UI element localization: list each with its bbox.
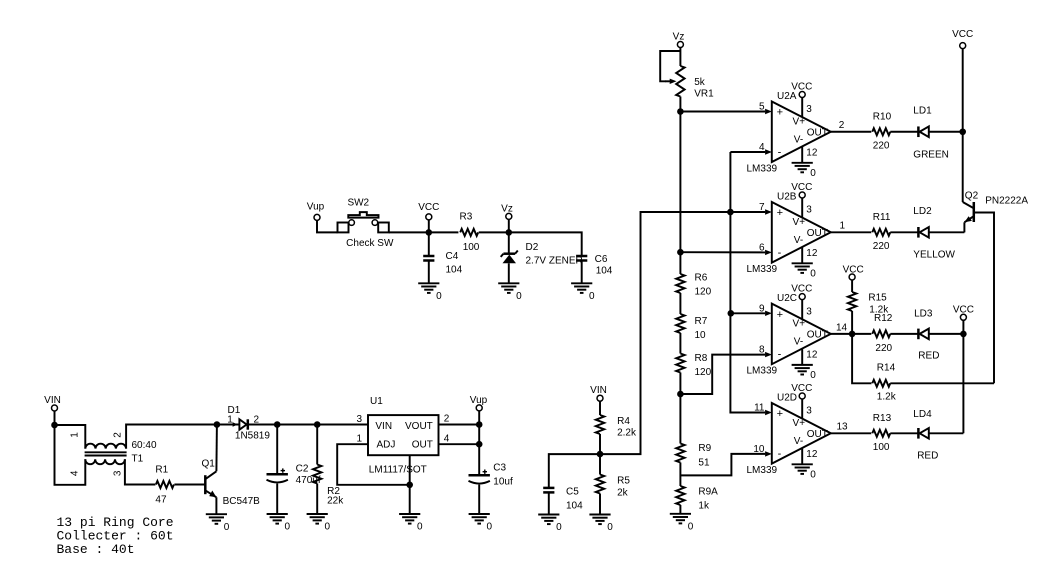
- node D1 anode junction: [214, 421, 221, 428]
- svg-text:12: 12: [806, 449, 818, 460]
- svg-text:BC547B: BC547B: [223, 496, 261, 507]
- svg-text:LM1117/SOT: LM1117/SOT: [369, 465, 427, 476]
- wire VCC node to R3: [429, 231, 459, 233]
- wire T1 pin2 to top rail: [126, 425, 217, 449]
- wire U1 gnd tab: [409, 455, 411, 514]
- svg-text:220: 220: [875, 343, 892, 354]
- resistor R5: [596, 475, 604, 494]
- capacitor C5 104: [543, 488, 554, 493]
- arrow into U2C - input: [765, 352, 772, 357]
- wire U2D output: [831, 432, 872, 434]
- wire D1 anode lead: [217, 424, 240, 426]
- op-amp U2D (LM339 comparator): [747, 392, 831, 476]
- node LD1-VCC junction: [959, 128, 966, 135]
- svg-text:0: 0: [589, 291, 595, 302]
- ground below D2: [498, 283, 522, 302]
- svg-text:1: 1: [70, 432, 81, 438]
- svg-text:R9: R9: [698, 443, 711, 454]
- svg-text:VCC: VCC: [953, 305, 974, 316]
- wire R11 to LD2: [890, 231, 918, 233]
- svg-text:0: 0: [487, 522, 493, 533]
- svg-text:D2: D2: [526, 242, 539, 253]
- node Vz junction: [506, 229, 513, 236]
- wire LD3 to VCC: [929, 333, 964, 335]
- op-amp U2B (LM339 comparator): [747, 191, 831, 274]
- node measured-pin7 junction: [727, 209, 734, 216]
- Vz terminal (top mid): [501, 203, 513, 219]
- Vup terminal (at SW2): [307, 202, 325, 221]
- svg-text:OUT: OUT: [807, 228, 828, 239]
- svg-text:LD2: LD2: [913, 206, 932, 217]
- svg-text:-: -: [778, 146, 782, 158]
- wire R9A bottom lead: [679, 505, 681, 514]
- transformer T1 core: [85, 452, 127, 455]
- node ladder tap pin6: [677, 249, 684, 256]
- wire R5 top lead: [599, 454, 601, 474]
- svg-text:VIN: VIN: [375, 421, 392, 432]
- svg-text:4: 4: [70, 470, 81, 476]
- node OUT junction: [476, 441, 483, 448]
- svg-text:GREEN: GREEN: [913, 149, 949, 160]
- wire U2A output: [831, 131, 872, 133]
- svg-text:1.2k: 1.2k: [877, 392, 897, 403]
- wire R2 bottom lead: [316, 484, 318, 515]
- VCC terminal (top mid): [418, 202, 439, 220]
- wire Q1 emitter down: [215, 497, 217, 514]
- svg-text:104: 104: [446, 265, 463, 276]
- wire divider to pin7 rail: [600, 212, 765, 454]
- svg-text:14: 14: [836, 322, 848, 333]
- svg-text:OUT: OUT: [412, 439, 433, 450]
- wire C3 bottom lead: [478, 485, 480, 514]
- svg-text:0: 0: [516, 291, 522, 302]
- wire pin9 tap to U2C +: [731, 312, 765, 314]
- svg-text:VCC: VCC: [952, 29, 973, 40]
- svg-text:6: 6: [759, 242, 765, 253]
- LED LD3: [918, 329, 928, 340]
- ground below U2B: [792, 263, 817, 279]
- svg-text:U1: U1: [370, 396, 383, 407]
- op-amp U2C VCC pin: [791, 284, 812, 319]
- wire VIN node to T1 pin1: [55, 425, 86, 449]
- svg-text:4: 4: [444, 434, 450, 445]
- svg-text:3: 3: [806, 205, 812, 216]
- wire LD2 to Q2 emitter: [929, 231, 965, 233]
- arrow into U2A - input: [765, 149, 772, 154]
- node VOUT junction: [476, 421, 483, 428]
- svg-text:VCC: VCC: [843, 264, 864, 275]
- capacitor C4 104: [423, 256, 434, 261]
- node R2 junction: [314, 421, 321, 428]
- svg-text:0: 0: [417, 522, 423, 533]
- ground below C2: [267, 514, 291, 533]
- wire C2 bottom lead: [276, 484, 278, 515]
- svg-text:Vup: Vup: [470, 395, 488, 406]
- svg-text:1k: 1k: [698, 501, 710, 512]
- svg-text:1: 1: [840, 221, 846, 232]
- svg-text:2.2k: 2.2k: [617, 428, 637, 439]
- arrow into U2A + input: [765, 109, 772, 114]
- arrow into U2C + input: [765, 311, 772, 316]
- svg-text:Base : 40t: Base : 40t: [57, 542, 135, 557]
- svg-text:C6: C6: [595, 254, 608, 265]
- node measured-pin9 junction: [728, 310, 735, 317]
- svg-text:V-: V-: [794, 337, 803, 348]
- svg-text:12: 12: [806, 248, 818, 259]
- wire R2 top lead: [316, 425, 318, 465]
- svg-text:R9A: R9A: [698, 487, 718, 498]
- svg-text:R1: R1: [155, 465, 168, 476]
- wire D2 top lead: [508, 232, 510, 253]
- capacitor C2 470uf: [267, 468, 288, 482]
- resistor R13: [872, 430, 890, 437]
- potentiometer VR1 5k: [676, 66, 684, 97]
- svg-text:R3: R3: [460, 212, 473, 223]
- svg-text:-: -: [778, 349, 782, 361]
- svg-text:OUT: OUT: [807, 429, 828, 440]
- svg-text:104: 104: [596, 266, 613, 277]
- resistor R15: [848, 292, 856, 311]
- wire C2 top lead: [276, 425, 278, 475]
- wire R9 to pin10 tap: [679, 463, 681, 487]
- wire R6-R7: [679, 293, 681, 314]
- wire U1 OUT to Vup rail: [439, 443, 480, 445]
- wire VCC rail down to Q2: [962, 49, 964, 202]
- op-amp U2A (LM339 comparator): [747, 91, 831, 175]
- resistor R12: [872, 330, 890, 337]
- transformer T1 primary winding: [85, 444, 126, 449]
- svg-text:VIN: VIN: [44, 395, 61, 406]
- svg-text:V+: V+: [793, 319, 806, 330]
- VCC terminal (top right): [952, 29, 973, 49]
- svg-text:11: 11: [754, 403, 765, 414]
- svg-text:1: 1: [227, 414, 233, 425]
- wire VR1 to ladder top node: [679, 97, 681, 112]
- diode D1 pin arrow: [233, 422, 238, 427]
- resistor R9: [676, 444, 684, 463]
- wire measured rail pin4: [730, 151, 765, 153]
- wire D2 bottom lead: [508, 263, 510, 283]
- resistor R4: [596, 415, 604, 434]
- svg-text:LM339: LM339: [747, 465, 778, 476]
- svg-text:120: 120: [695, 367, 712, 378]
- wire R15 to out14 node: [851, 311, 853, 334]
- ground below R2: [307, 514, 331, 533]
- resistor R14: [872, 380, 890, 387]
- wire R12 to LD3: [890, 333, 918, 335]
- node divider junction: [597, 451, 604, 458]
- svg-text:100: 100: [463, 242, 480, 253]
- VCC terminal (above R15): [843, 264, 864, 280]
- arrow into U2B + input: [765, 209, 772, 214]
- wire Q2 emitter to LD2: [963, 222, 965, 232]
- wire VIN terminal to node: [54, 411, 56, 425]
- VIN terminal (left): [44, 395, 61, 411]
- wire Q1 collector up: [215, 425, 218, 472]
- arrow into U2B - input: [765, 250, 772, 255]
- svg-text:R10: R10: [873, 111, 892, 122]
- svg-text:0: 0: [436, 291, 442, 302]
- op-amp U2A ground pin: [801, 147, 803, 163]
- svg-text:LD1: LD1: [913, 106, 932, 117]
- node C2 junction: [274, 421, 281, 428]
- Vup terminal (at U1): [470, 395, 488, 411]
- wire Vup to SW2: [317, 220, 338, 232]
- svg-text:R8: R8: [695, 353, 708, 364]
- wire LD1 to VCC rail: [929, 131, 963, 133]
- svg-text:YELLOW: YELLOW: [913, 250, 955, 261]
- svg-text:Q1: Q1: [202, 459, 216, 470]
- svg-text:0: 0: [325, 522, 331, 533]
- node VCC junction: [426, 229, 433, 236]
- resistor R3: [460, 229, 478, 236]
- svg-text:OUT: OUT: [807, 127, 828, 138]
- wire ladder R6 top lead: [679, 252, 681, 274]
- wire measured rail vertical: [730, 152, 765, 413]
- wire R3 to Vz node: [479, 231, 509, 233]
- transistor Q1 BC547B: [205, 471, 216, 497]
- svg-text:R12: R12: [874, 313, 893, 324]
- svg-text:0: 0: [688, 521, 694, 532]
- LED LD2: [918, 227, 928, 238]
- svg-text:VCC: VCC: [791, 284, 812, 295]
- svg-text:VR1: VR1: [694, 89, 714, 100]
- svg-text:Vup: Vup: [307, 202, 325, 213]
- svg-text:47: 47: [155, 495, 167, 506]
- op-amp U2D VCC pin: [791, 383, 812, 418]
- svg-text:+: +: [777, 207, 783, 219]
- capacitor C6 104: [576, 256, 587, 261]
- svg-text:V+: V+: [793, 116, 806, 127]
- svg-text:5k: 5k: [694, 77, 706, 88]
- wire U1 VOUT to Vup node: [439, 424, 480, 426]
- svg-text:V-: V-: [794, 134, 803, 145]
- resistor R2: [313, 465, 321, 484]
- svg-text:2: 2: [112, 432, 123, 438]
- diode D1 1N5819: [239, 419, 247, 429]
- wire ladder to pin6 tap: [679, 112, 681, 253]
- svg-text:LM339: LM339: [747, 264, 778, 275]
- wire VIN to R4: [599, 401, 601, 415]
- svg-text:VOUT: VOUT: [405, 421, 433, 432]
- wire R14 to Q2 base rail: [890, 382, 994, 384]
- svg-text:22k: 22k: [327, 496, 344, 507]
- svg-text:VIN: VIN: [590, 385, 607, 396]
- svg-text:2: 2: [839, 120, 845, 131]
- node ladder tap pin8: [677, 391, 684, 398]
- wire ladder to R9: [679, 394, 681, 444]
- svg-text:LM339: LM339: [747, 163, 778, 174]
- wire out14 to R14: [852, 334, 871, 383]
- svg-text:C4: C4: [446, 251, 459, 262]
- node U1 ADJ-gnd junction: [406, 482, 413, 489]
- VIN terminal (middle): [590, 385, 607, 401]
- node LD3-VCC junction: [960, 331, 967, 338]
- svg-text:10uf: 10uf: [493, 476, 513, 487]
- op-amp U2C (LM339 comparator): [747, 293, 831, 377]
- wire VCC to R15: [851, 280, 853, 292]
- ground below C4: [418, 283, 442, 302]
- svg-text:60:40: 60:40: [132, 440, 157, 451]
- svg-text:1N5819: 1N5819: [235, 430, 270, 441]
- wire Vz node to C6: [509, 232, 582, 256]
- svg-text:LD3: LD3: [914, 308, 933, 319]
- svg-text:+: +: [777, 408, 783, 420]
- transformer T1 secondary winding: [85, 459, 125, 464]
- svg-text:R6: R6: [695, 273, 708, 284]
- resistor R7: [676, 314, 684, 333]
- svg-text:SW2: SW2: [347, 197, 369, 208]
- svg-text:LM339: LM339: [747, 365, 778, 376]
- node VIN junction: [51, 422, 58, 429]
- svg-text:VCC: VCC: [791, 182, 812, 193]
- wire Vz stub: [508, 219, 510, 232]
- wire R4 to divider node: [599, 434, 601, 454]
- wire LD3 node down to LD4: [962, 334, 964, 433]
- op-amp U2B ground pin: [801, 248, 803, 264]
- op-amp U2A VCC pin: [791, 81, 812, 116]
- svg-text:Vz: Vz: [501, 203, 513, 214]
- svg-text:R5: R5: [617, 476, 630, 487]
- svg-text:RED: RED: [917, 450, 938, 461]
- svg-text:0: 0: [810, 268, 816, 279]
- transistor Q2 PN2222A: [963, 202, 974, 222]
- VCC terminal (right of LD3): [953, 305, 974, 321]
- wire U2C output: [831, 333, 872, 335]
- svg-text:R4: R4: [617, 416, 630, 427]
- wire C2 node to R2 node: [277, 424, 317, 426]
- svg-text:PN2222A: PN2222A: [985, 196, 1028, 207]
- svg-text:R14: R14: [877, 363, 896, 374]
- svg-text:104: 104: [566, 501, 583, 512]
- svg-text:V+: V+: [793, 418, 806, 429]
- wire R7-R8: [679, 333, 681, 354]
- wire Q2 base: [974, 213, 994, 384]
- svg-text:3: 3: [806, 306, 812, 317]
- svg-text:0: 0: [556, 522, 562, 533]
- wire U1 ADJ loop: [337, 444, 410, 485]
- arrow into U2D + input: [765, 410, 772, 415]
- svg-text:5: 5: [759, 102, 765, 113]
- wire pin6 tap to U2B -: [680, 251, 765, 253]
- svg-text:10: 10: [753, 444, 765, 455]
- svg-text:0: 0: [224, 522, 230, 533]
- svg-text:RED: RED: [918, 351, 939, 362]
- svg-text:3: 3: [112, 470, 123, 476]
- wire R10 to LD1: [890, 131, 918, 133]
- ground below Q1: [206, 514, 230, 533]
- wire divider to C5: [549, 454, 600, 488]
- svg-text:10: 10: [695, 330, 707, 341]
- wire Vz to VR1: [679, 48, 681, 67]
- svg-text:ADJ: ADJ: [377, 439, 396, 450]
- op-amp U2C ground pin: [801, 349, 803, 365]
- wire SW2 to VCC node: [389, 231, 429, 233]
- ground below U2D: [792, 464, 817, 480]
- svg-text:V-: V-: [794, 436, 803, 447]
- svg-text:3: 3: [806, 104, 812, 115]
- arrow VR1 wiper: [670, 79, 677, 84]
- resistor R6: [676, 274, 684, 293]
- svg-text:13: 13: [837, 422, 849, 433]
- wire LD4 to VCC rail: [929, 432, 964, 434]
- svg-text:-: -: [778, 448, 782, 460]
- LED LD1: [918, 126, 928, 137]
- svg-text:OUT: OUT: [807, 330, 828, 341]
- svg-text:+: +: [777, 309, 783, 321]
- svg-text:C2: C2: [296, 463, 309, 474]
- wire U2B output: [831, 231, 872, 233]
- ground below U1: [399, 514, 423, 533]
- svg-text:V+: V+: [793, 217, 806, 228]
- ground below U2A: [792, 163, 817, 179]
- svg-text:C3: C3: [493, 463, 506, 474]
- svg-text:51: 51: [698, 458, 710, 469]
- wire R2 node to U1 VIN: [317, 424, 368, 426]
- svg-text:12: 12: [806, 350, 818, 361]
- wire D1 cathode to C2 node: [248, 424, 277, 426]
- svg-text:2k: 2k: [617, 488, 629, 499]
- wire VCC stub to LD3 node: [962, 320, 964, 334]
- wire pin8 tap to U2C -: [680, 355, 765, 394]
- node ladder tap pin5: [677, 108, 684, 115]
- wire pin10 tap to U2D -: [680, 454, 765, 476]
- svg-text:9: 9: [759, 303, 765, 314]
- svg-text:120: 120: [695, 287, 712, 298]
- wire Vup vertical: [478, 411, 480, 475]
- svg-text:VCC: VCC: [791, 383, 812, 394]
- switch SW2 body: [338, 212, 389, 232]
- svg-text:VCC: VCC: [418, 202, 439, 213]
- wire C5 bottom lead: [548, 492, 550, 514]
- svg-text:+: +: [777, 107, 783, 119]
- svg-text:R15: R15: [868, 293, 887, 304]
- ground below R9A: [670, 514, 694, 533]
- wire VCC stub: [428, 220, 430, 233]
- resistor R11: [872, 229, 890, 236]
- wire R8 to pin8 tap: [679, 373, 681, 395]
- capacitor C3 10uf: [469, 470, 490, 484]
- zener diode D2 2.7V: [501, 251, 518, 264]
- wire C4 top lead: [428, 232, 430, 256]
- op-amp U2B VCC pin: [791, 182, 812, 217]
- svg-text:2.7V ZENER: 2.7V ZENER: [526, 256, 583, 267]
- svg-text:0: 0: [810, 469, 816, 480]
- wire C4 bottom lead: [428, 261, 430, 284]
- wire R13 to LD4: [890, 432, 918, 434]
- wire VIN node down to T1 pin4: [55, 425, 86, 485]
- wire T1 pin3 to R1: [125, 459, 155, 484]
- svg-text:12: 12: [806, 147, 818, 158]
- note text block: [57, 515, 174, 557]
- svg-text:R13: R13: [873, 413, 892, 424]
- svg-text:VCC: VCC: [791, 81, 812, 92]
- resistor R9A: [676, 486, 684, 505]
- node out14 junction: [849, 331, 856, 338]
- svg-text:LD4: LD4: [913, 409, 932, 420]
- svg-text:220: 220: [873, 241, 890, 252]
- svg-text:0: 0: [810, 168, 816, 179]
- ground below C3: [469, 514, 493, 533]
- ground below U2C: [792, 365, 817, 381]
- svg-text:Vz: Vz: [673, 32, 685, 43]
- ground below R5: [589, 515, 613, 534]
- svg-text:8: 8: [759, 345, 765, 356]
- svg-text:R11: R11: [873, 212, 891, 223]
- wire C6 bottom lead: [581, 261, 583, 284]
- svg-text:2: 2: [444, 413, 450, 424]
- regulator U1 body: [368, 415, 439, 455]
